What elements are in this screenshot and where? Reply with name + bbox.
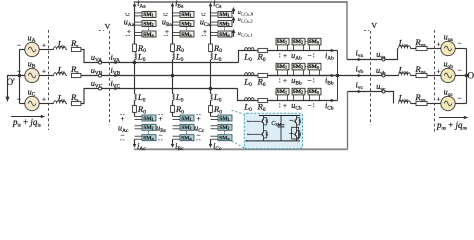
node u_VB bbox=[99, 74, 102, 77]
gate line T2 bbox=[248, 133, 261, 135]
node u_vb bbox=[382, 74, 385, 77]
label u_Ab with polarity bbox=[279, 53, 281, 58]
svg-text:O: O bbox=[468, 71, 474, 81]
current arrow i_VC bbox=[111, 88, 117, 90]
submodule SM1 box bbox=[180, 11, 194, 17]
dashed separator line left inner bbox=[109, 31, 111, 125]
svg-text:SM1: SM1 bbox=[143, 12, 153, 18]
branch Ba arm current arrow i_Ba bbox=[172, 4, 174, 7]
wire source u_B to rail bbox=[20, 75, 26, 77]
svg-text:CSM: CSM bbox=[271, 121, 281, 127]
ellipsis dots between SM2 and SMn bbox=[224, 27, 225, 28]
capacitor voltage arrow bbox=[233, 32, 235, 37]
svg-text:+: + bbox=[436, 94, 440, 103]
svg-text:SM1: SM1 bbox=[143, 116, 153, 122]
dashed separator line right inner bbox=[370, 31, 372, 125]
submodule SMn box bbox=[142, 31, 156, 37]
svg-text:SMn: SMn bbox=[219, 32, 229, 38]
node u_va bbox=[382, 58, 385, 61]
inductor Ls phase A bbox=[54, 47, 66, 50]
svg-text:pos + jqos: pos + jqos bbox=[436, 120, 467, 131]
output b bus vertical bbox=[337, 51, 339, 101]
label u_Bb with polarity bbox=[279, 78, 281, 83]
SM detail H-bridge top rail bbox=[259, 115, 300, 117]
submodule SM2 box bbox=[142, 124, 156, 130]
wire Ls to Rs phase B bbox=[66, 75, 67, 77]
svg-text:pis + jqis: pis + jqis bbox=[12, 117, 41, 128]
output row a wire bbox=[347, 48, 398, 59]
power flow arrow input bbox=[11, 116, 42, 118]
submodule box bbox=[292, 63, 305, 70]
callout dashed line bottom bbox=[232, 141, 245, 148]
svg-text:−: − bbox=[457, 66, 461, 75]
branch Ac wire from phase tap bbox=[134, 63, 136, 94]
transistor T3 (right top IGBT) bbox=[296, 118, 298, 120]
top bus (output phase a) bbox=[134, 1, 348, 3]
svg-text:SMn: SMn bbox=[309, 64, 319, 70]
svg-text:SMn: SMn bbox=[309, 39, 319, 45]
ellipsis dots between SM2 and SMn bbox=[148, 131, 149, 132]
dashed separator line left outer bbox=[48, 30, 50, 130]
svg-text:+: + bbox=[42, 94, 46, 103]
gate line T4 bbox=[290, 132, 294, 134]
submodule SMn box bbox=[180, 135, 194, 141]
submodule box bbox=[276, 63, 289, 70]
branch Ca column wire bbox=[210, 6, 212, 44]
node O rail bbox=[466, 49, 468, 104]
svg-text:SM2: SM2 bbox=[219, 125, 229, 131]
inductor Ls phase B bbox=[54, 73, 66, 76]
svg-text:+: + bbox=[127, 27, 131, 36]
svg-text:SM2: SM2 bbox=[293, 39, 303, 45]
submodule SM2 box bbox=[218, 124, 232, 130]
inductor Ls phase C bbox=[54, 101, 66, 104]
svg-text:−: − bbox=[158, 131, 162, 140]
branch Ca arm current arrow i_Ca bbox=[210, 4, 212, 7]
current arrow i_Cb bbox=[327, 100, 333, 102]
submodule box bbox=[292, 38, 305, 45]
wire Ls to Rs phase A bbox=[66, 49, 67, 51]
submodule SM1 box bbox=[142, 11, 156, 17]
submodule SM1 box bbox=[180, 115, 194, 121]
label u_Cb with polarity bbox=[279, 103, 281, 108]
svg-text:−: − bbox=[201, 11, 205, 20]
capacitor C_SM bbox=[280, 116, 282, 125]
inductor Los row vb bbox=[399, 73, 411, 76]
svg-text:SM2: SM2 bbox=[219, 21, 229, 27]
AC source u_B bbox=[25, 68, 39, 82]
svg-text:+: + bbox=[42, 40, 46, 49]
inductor L0 branch Cc bbox=[211, 94, 213, 101]
svg-text:+: + bbox=[121, 114, 125, 123]
branch Ac wire to bottom bus bbox=[134, 139, 136, 143]
phase line VB bbox=[102, 75, 338, 77]
wire Ls to Rs phase C bbox=[66, 103, 67, 105]
svg-text:−: − bbox=[17, 94, 21, 103]
svg-text:SM2: SM2 bbox=[293, 64, 303, 70]
resistor Ros row va bbox=[416, 46, 427, 50]
branch Ca wire to phase tap bbox=[210, 60, 212, 89]
submodule SM2 box bbox=[180, 124, 194, 130]
resistor R0 branch Aa bbox=[133, 44, 137, 52]
current arrow i_vc bbox=[354, 91, 360, 93]
arm current arrow i_Bc bbox=[172, 143, 174, 146]
submodule box bbox=[276, 88, 289, 95]
svg-text:+: + bbox=[203, 27, 207, 36]
svg-text:−: − bbox=[17, 40, 21, 49]
submodule SM1 box bbox=[142, 115, 156, 121]
phase line VC bbox=[102, 88, 238, 90]
wire source u_A to rail bbox=[20, 49, 26, 51]
svg-text:SM1: SM1 bbox=[181, 12, 191, 18]
transistor T1 (left top IGBT) bbox=[263, 118, 265, 120]
node u_VC bbox=[99, 87, 102, 90]
wire L0 to R0 branch Bc bbox=[172, 100, 174, 105]
svg-text:SM2: SM2 bbox=[293, 89, 303, 95]
current arrow i_VB bbox=[111, 75, 117, 77]
resistor R0 branch Ba bbox=[171, 44, 175, 52]
resistor R0 branch Ca bbox=[209, 44, 213, 52]
dashed separator line right outer bbox=[434, 30, 436, 133]
output row b wire bbox=[339, 75, 399, 77]
branch Ab riser from phase A bbox=[239, 51, 338, 63]
branch Bb wire bbox=[245, 75, 338, 77]
svg-text:+: + bbox=[436, 66, 440, 75]
resistor Ros row vb bbox=[416, 73, 427, 77]
submodule SM1 box bbox=[218, 11, 232, 17]
resistor R0 branch Cc bbox=[209, 106, 213, 113]
resistor Rs phase C bbox=[72, 101, 81, 105]
inductor L0 branch Aa bbox=[135, 53, 137, 60]
submodule box bbox=[276, 38, 289, 45]
phase tap junction A bbox=[133, 61, 137, 65]
node u_vc bbox=[382, 90, 385, 93]
left leg connections bbox=[263, 116, 265, 118]
svg-text:+: + bbox=[436, 39, 440, 48]
wire Ros to source u_ob bbox=[427, 75, 441, 77]
inductor L0 branch Ab bbox=[245, 48, 255, 51]
wire L0 to R0 branch Ac bbox=[134, 100, 136, 105]
wire source u_oc to O rail bbox=[455, 103, 467, 105]
branch Aa column wire bbox=[134, 6, 136, 44]
svg-text:SMn: SMn bbox=[219, 136, 229, 142]
wire u_C to Ls bbox=[39, 103, 54, 105]
current arrow i_Ab bbox=[327, 50, 333, 52]
ellipsis dots between SM2 and SMn bbox=[148, 27, 149, 28]
ellipsis dots between SM2 and SMn bbox=[186, 131, 187, 132]
submodule SM1 box bbox=[218, 115, 232, 121]
submodule box bbox=[308, 38, 321, 45]
svg-text:SM2: SM2 bbox=[181, 21, 191, 27]
submodule SM2 box bbox=[218, 21, 232, 27]
submodule SM2 box bbox=[142, 21, 156, 27]
submodule SM2 box bbox=[180, 21, 194, 27]
transistor T2 (left bottom IGBT) bbox=[263, 131, 265, 133]
resistor R0 branch Ac bbox=[133, 106, 137, 113]
arm current arrow i_Ac bbox=[134, 143, 136, 146]
svg-text:SM2: SM2 bbox=[143, 125, 153, 131]
branch Ba column wire bbox=[172, 6, 174, 44]
resistor R0 branch Ab bbox=[258, 48, 267, 52]
branch Aa wire to phase tap bbox=[134, 60, 136, 63]
callout dashed line top bbox=[232, 110, 245, 114]
svg-text:+: + bbox=[159, 114, 163, 123]
submodule box bbox=[308, 88, 321, 95]
svg-text:−: − bbox=[196, 131, 200, 140]
junction b bus to output row bbox=[336, 74, 340, 78]
AC source u_ob bbox=[441, 68, 455, 82]
junction at O-prime bbox=[18, 74, 22, 78]
gate line T1 bbox=[248, 120, 261, 122]
ellipsis dots between SM2 and SMn bbox=[224, 131, 225, 132]
svg-text:SM1: SM1 bbox=[277, 64, 287, 70]
submodule SMn box bbox=[218, 31, 232, 37]
wire Rs to step phase B bbox=[81, 75, 100, 77]
svg-text:SMn: SMn bbox=[309, 89, 319, 95]
svg-text:−: − bbox=[163, 11, 167, 20]
wire u_A to Ls bbox=[39, 49, 54, 51]
svg-text:SMn: SMn bbox=[181, 32, 191, 38]
inductor L0 branch Ac bbox=[135, 94, 137, 101]
wire source u_oa to O rail bbox=[455, 48, 467, 50]
bottom bus (output phase c) bbox=[134, 148, 348, 150]
wire source u_ob to O rail bbox=[455, 75, 467, 77]
branch Ba wire to phase tap bbox=[172, 60, 174, 76]
submodule SMn box bbox=[142, 135, 156, 141]
svg-text:SM1: SM1 bbox=[277, 89, 287, 95]
branch Bc wire from phase tap bbox=[172, 76, 174, 94]
svg-text:V: V bbox=[371, 21, 377, 30]
node u_VA bbox=[99, 61, 102, 64]
svg-text:−: − bbox=[307, 51, 311, 60]
arm current arrow i_Cc bbox=[210, 143, 212, 146]
current arrow i_va bbox=[354, 59, 360, 61]
svg-text:V: V bbox=[105, 22, 111, 31]
phase line VA bbox=[102, 62, 239, 64]
output c bus vertical bbox=[347, 92, 349, 150]
resistor Ros row vc bbox=[416, 101, 427, 105]
capacitor voltage arrow bbox=[233, 10, 235, 14]
branch Cb riser from phase C bbox=[238, 89, 338, 101]
AC source u_oc bbox=[441, 96, 455, 110]
svg-text:+: + bbox=[42, 66, 46, 75]
svg-text:+: + bbox=[283, 51, 287, 60]
current arrow i_Bb bbox=[327, 75, 333, 77]
output a bus vertical bbox=[346, 2, 348, 60]
svg-text:SM1: SM1 bbox=[181, 116, 191, 122]
svg-text:SMn: SMn bbox=[143, 136, 153, 142]
svg-text:−: − bbox=[457, 39, 461, 48]
node O-prime rail bbox=[19, 50, 21, 104]
svg-text:SM1: SM1 bbox=[219, 116, 229, 122]
inductor L0 branch Cb bbox=[245, 98, 255, 101]
submodule box bbox=[308, 63, 321, 70]
svg-text:SM1: SM1 bbox=[277, 39, 287, 45]
submodule SMn box bbox=[218, 135, 232, 141]
wire R0 to stack branch Cc bbox=[210, 112, 212, 116]
svg-text:−: − bbox=[307, 101, 311, 110]
submodule SMn box bbox=[180, 31, 194, 37]
wire Los to Ros bbox=[411, 48, 417, 50]
SM detail terminal dot bottom left bbox=[246, 140, 248, 142]
svg-text:+: + bbox=[165, 27, 169, 36]
resistor Rs phase B bbox=[72, 73, 81, 77]
submodule box bbox=[292, 88, 305, 95]
ellipsis dots bbox=[305, 91, 306, 92]
svg-text:SMn: SMn bbox=[181, 136, 191, 142]
AC source u_A bbox=[25, 42, 39, 56]
junction at O bbox=[465, 74, 469, 78]
capacitor voltage arrow bbox=[233, 19, 235, 23]
wire Los to Ros bbox=[411, 75, 417, 77]
current arrow i_vb bbox=[354, 75, 360, 77]
resistor R0 branch Bb bbox=[258, 73, 267, 77]
ellipsis dots bbox=[305, 41, 306, 42]
transistor T4 (right bottom IGBT) bbox=[296, 131, 298, 133]
neutral arrow at O-prime bbox=[8, 76, 20, 98]
svg-text:+: + bbox=[197, 114, 201, 123]
wire R0 to stack branch Ac bbox=[134, 112, 136, 116]
phase tap junction C bbox=[209, 87, 213, 91]
svg-text:−: − bbox=[17, 66, 21, 75]
inductor L0 branch Ca bbox=[211, 53, 213, 60]
inductor L0 branch Bb bbox=[245, 73, 255, 76]
svg-text:SM2: SM2 bbox=[181, 125, 191, 131]
gate line T3 bbox=[290, 119, 294, 121]
inductor L0 branch Ba bbox=[173, 53, 175, 60]
wire R0 to stack branch Bc bbox=[172, 112, 174, 116]
wire Ros to source u_oc bbox=[427, 103, 441, 105]
ellipsis dots bbox=[305, 66, 306, 67]
SM detail H-bridge bottom rail bbox=[246, 140, 300, 142]
AC source u_oa bbox=[441, 41, 455, 55]
wire Rs to step phase C bbox=[81, 89, 100, 104]
branch Aa arm current arrow i_Aa bbox=[134, 4, 136, 7]
bypass rectangle bbox=[292, 127, 299, 139]
wire Los to Ros bbox=[411, 103, 417, 105]
branch Cc wire from phase tap bbox=[210, 89, 212, 94]
inductor L0 branch Bc bbox=[173, 94, 175, 101]
power flow arrow output bbox=[439, 117, 465, 119]
wire Ros to source u_oa bbox=[427, 48, 441, 50]
output row c wire bbox=[348, 92, 394, 104]
resistor R0 branch Cb bbox=[258, 98, 267, 102]
ellipsis dots between SM2 and SMn bbox=[186, 27, 187, 28]
wire Rs to step phase A bbox=[81, 50, 100, 63]
resistor Rs phase A bbox=[72, 47, 81, 51]
resistor R0 branch Bc bbox=[171, 106, 175, 113]
svg-text:SM2: SM2 bbox=[143, 21, 153, 27]
svg-text:+: + bbox=[283, 76, 287, 85]
submodule detail box bbox=[244, 113, 302, 148]
svg-text:−: − bbox=[457, 94, 461, 103]
branch Bc wire to bottom bus bbox=[172, 139, 174, 143]
wire u_B to Ls bbox=[39, 75, 54, 77]
AC source u_C bbox=[25, 96, 39, 110]
right leg connections bbox=[296, 116, 298, 118]
inductor Los row va bbox=[399, 46, 411, 49]
inductor Los row vc bbox=[399, 101, 411, 104]
phase tap junction B bbox=[171, 74, 175, 78]
svg-text:SM1: SM1 bbox=[219, 12, 229, 18]
wire source u_C to rail bbox=[20, 103, 26, 105]
svg-text:−: − bbox=[120, 131, 124, 140]
svg-text:+: + bbox=[283, 101, 287, 110]
svg-text:SMn: SMn bbox=[143, 32, 153, 38]
current arrow i_VA bbox=[111, 62, 117, 64]
wire L0 to R0 branch Cc bbox=[210, 100, 212, 105]
branch Cc wire to bottom bus bbox=[210, 139, 212, 143]
svg-text:−: − bbox=[125, 11, 129, 20]
svg-text:−: − bbox=[307, 76, 311, 85]
